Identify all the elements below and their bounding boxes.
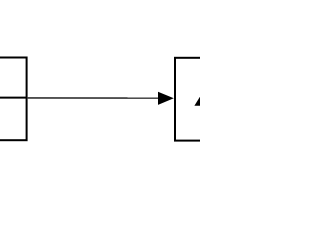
arrowhead xyxy=(158,92,174,105)
wire (connector arrow shaft) xyxy=(27,97,160,99)
partial glyph inside right box xyxy=(194,96,200,106)
divider wire inside left box xyxy=(0,97,27,99)
left box (clipped at left image edge) xyxy=(0,58,27,141)
right box (clipped at right image edge) xyxy=(175,58,220,141)
